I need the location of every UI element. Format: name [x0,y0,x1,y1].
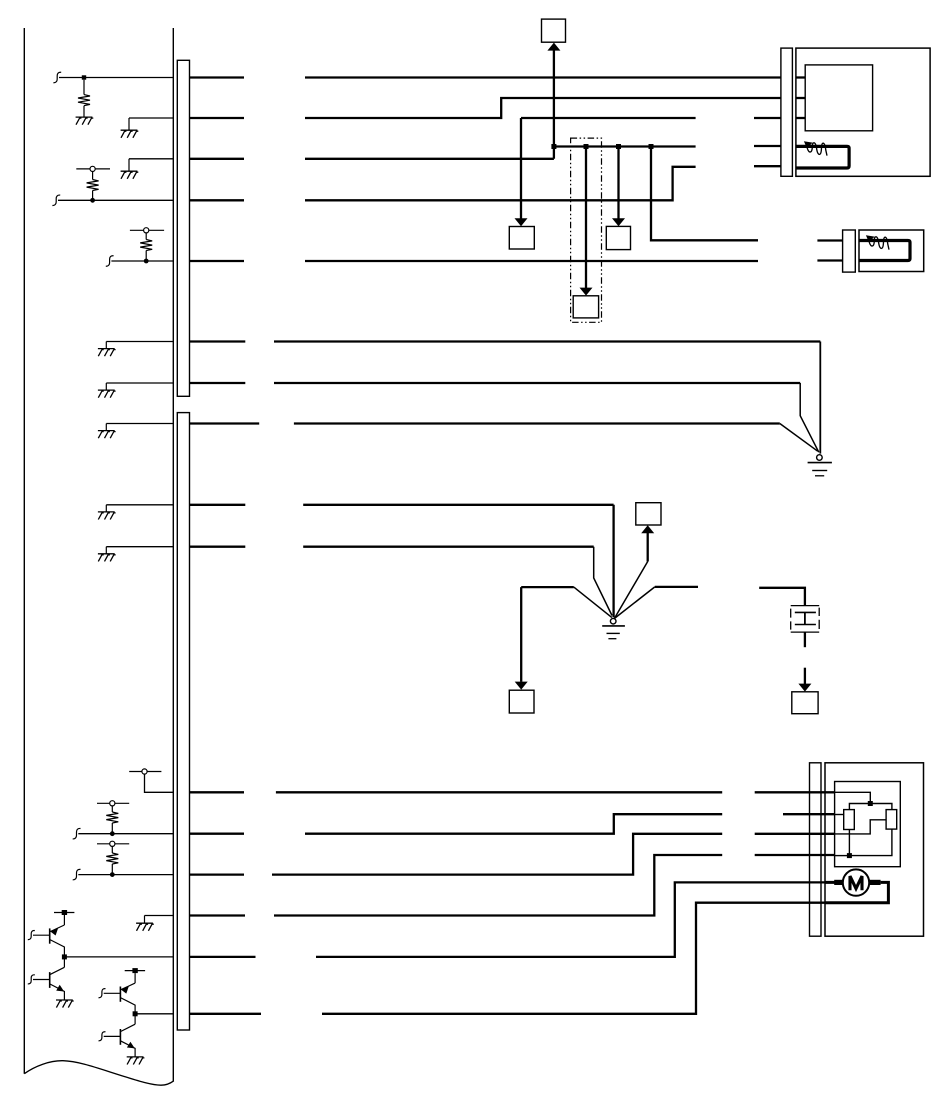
wire row5 thick a [190,260,245,262]
wire rowB3 stub at connector [755,833,835,835]
wire rowB2 stub at connector [783,813,835,815]
transistor Q2 [28,957,65,1000]
connector strip rectangle lower [177,413,189,1030]
heater E2 arrow [866,235,875,242]
ground G6 [98,424,116,439]
wire rowB6 thick b with jog up [322,903,825,1014]
wire row6 thick b [274,340,820,342]
node tap 586 [584,144,589,149]
wire tap 618 down [617,147,619,219]
node row5 junction [144,259,149,264]
wire row5 thick b [305,260,758,262]
chassis ground GC1 [808,455,832,476]
wire row7 thick a [190,382,246,384]
connector strip U1 [781,48,793,176]
wire rowB2 thick b with jog up [305,814,722,834]
node Q1/Q2 junction [62,954,67,959]
wire row1 thick b [305,76,781,78]
wire tap bus stub at connector [754,145,781,147]
resistor R4 rail with pin circle [97,801,129,834]
wire row1 thick a [190,76,245,78]
wire rowB2 left [78,833,173,835]
arrow into S7 [798,684,811,692]
inner module box U2a [835,782,901,867]
hook row1 [53,72,61,82]
connector square S7 [792,692,818,714]
connector square S2 [509,227,534,250]
wire row2 thick b with jog up [305,98,781,118]
wire row8 thick b [294,422,780,424]
component box U2 [825,763,924,936]
wire stub U2 pin3 with step [835,820,887,834]
capacitor C1 plates [795,612,816,624]
wire right branch horizontal [655,586,698,588]
ground G1 [76,117,94,125]
wire rowB4 stub at connector [755,854,835,856]
wire stub U1 pin2 [796,97,805,99]
wire row10 thick a [190,546,246,548]
wire arrow-feed horizontal y118 [521,117,696,119]
wire row6 left [106,341,173,343]
wire rowB4 thick b with jog up [274,855,722,916]
arrow into S2 [515,218,528,226]
wire stub U1 pin3 [796,117,805,119]
wire row9 thick a [190,504,246,506]
wire left branch diagonal to ground [574,587,612,618]
arrow into S1 [547,43,560,51]
wire row9 down to ground [612,505,614,617]
wire left branch down [520,587,522,682]
heater E1 arrow [804,141,813,148]
hook rowB3 [73,869,81,879]
node inner junction2 [847,853,852,858]
motor M1 circle [843,869,869,895]
connector square S5 [636,503,661,525]
arrow into S6 [515,682,528,690]
wire row10 left [106,546,173,548]
hook rowB2 [73,828,81,838]
wire capacitor bottom lead [804,632,806,647]
ground G7 [98,505,116,520]
resistor R3 rail with pin circle [130,228,164,261]
wire rowB1 thick b [276,791,722,793]
wire rowB3 thick b with jog up [272,834,722,875]
wire row7 thick b [274,382,800,384]
wire rowB4 left [145,915,174,917]
component box E2 [859,230,924,272]
resistor RB [886,810,897,830]
heater E2 squiggle [869,237,889,250]
heater element E2 loop [859,241,910,261]
wire row1 left [59,77,173,79]
wire tap 651 down and right [651,147,758,241]
connector square S6 [509,690,534,713]
motor M1 left terminal [834,880,843,885]
wire row3 thick b [305,158,554,160]
wire rowB1 thick a [190,791,245,793]
wire rowB6 left [135,1013,173,1015]
wire row4 left [58,199,173,201]
wire row4 stub at connector [754,165,781,167]
wire row4 thick b with jog up [305,167,696,201]
wire arrow to S7 [804,668,806,685]
wire arrow branch up [647,532,649,561]
transistor Q3 [99,973,136,1014]
ground G2 [121,118,139,138]
node row4 junction [90,198,95,203]
arrow into S5 [641,525,654,533]
wire row4 thick a [190,199,245,201]
wire rowB1 thick c [755,791,835,793]
node tap 618 [616,144,621,149]
terminal T1 [54,910,74,915]
terminal T2 [125,968,145,973]
wire row8 diagonal to ground [780,424,818,452]
wire rowB6 thick a [190,1013,262,1015]
wire rowB4 thick a [190,914,246,916]
wire row9 left [106,504,173,506]
connector square S4 [573,296,598,318]
resistor R5 rail with pin circle [97,841,129,874]
resistor RA [844,810,855,830]
node tap 651 [649,144,654,149]
motor M1 right lead loop [825,882,888,902]
heater E1 squiggle [807,143,827,156]
wire row7 left [106,382,173,384]
node rowB2 junction [110,831,115,836]
wire diagonal ground to arrow branch [615,562,648,619]
transistor Q1 [28,915,65,957]
wire arrow-feed down [520,118,522,219]
wire diagonal ground to right branch [615,587,655,618]
wire rowB5 left [64,956,173,958]
wire heater2 lead2 [817,259,842,261]
motor M1 right terminal [869,880,880,885]
wire row5 left [111,260,173,262]
wire row9 thick b [303,504,613,506]
wire row3 left [129,158,173,160]
wire stub U2 pin1 with corner [835,792,871,803]
chassis ground GC2 [602,618,625,638]
connector square S3 [606,226,630,249]
switch SW1 rail with pin circle [129,769,173,792]
heater element E1 loop [796,146,849,168]
wire row6 down to ground [819,342,821,454]
connector square S1 top [542,19,566,42]
wire row8 thick a [190,422,260,424]
ground G8 [98,547,116,562]
ground G9 [136,916,154,931]
inner module box U1a [805,65,872,131]
wire rowB3 thick a [190,873,245,875]
resistor R1 [78,80,90,117]
wire row10 down and diagonal to ground [594,547,612,616]
wire stub U2 pin4 [835,855,850,857]
left page border [23,28,25,1074]
capacitor C1 dashed box [791,606,820,633]
wire row2 left [129,117,173,119]
ground G4 [98,342,116,357]
wire heater2 lead1 [817,239,842,241]
hook row4 [52,195,60,205]
ground G11 [127,1057,145,1065]
wire row8 left [106,423,173,425]
wire vertical from S1 to row3 [553,48,555,159]
torn paper wavy bottom edge [24,1061,174,1086]
wire rowB2 thick a [190,833,245,835]
connector strip U2 [810,763,822,936]
motor M1 left lead [825,881,843,884]
node rowB3 junction [110,872,115,877]
node tap bus junction [551,144,556,149]
wire rowB3 left [78,874,173,876]
resistor R2 rail with pin circle [76,166,110,200]
wire capacitor feed [759,588,805,606]
wire rowB5 thick b with jog up [316,882,825,957]
ground G5 [98,383,116,398]
node Q3/Q4 junction [133,1011,138,1016]
wire tap bus horizontal [554,145,696,147]
connector strip rectangle upper [177,60,189,396]
wire left branch horizontal [521,586,574,588]
hook row5 [106,256,114,266]
wire stub U1 pin1 [796,76,805,78]
wire row7 down and diagonal to ground [800,383,819,452]
wire resistor RB bottom lead [849,829,892,856]
ground G10 [56,1000,74,1008]
wire row10 thick b [303,546,594,548]
wire row3 thick a [190,158,245,160]
wire resistor RA bottom lead [848,830,850,856]
arrow into S3 [612,218,625,226]
wire tap 586 down [585,147,587,289]
wire resistor top rail [849,804,892,810]
wire stub U2 pin2 [835,814,844,816]
arrow into S4 [580,288,593,296]
wire rowB5 thick a [190,956,256,958]
dash-dot component box [571,138,602,322]
connector strip E2 [843,230,856,272]
wire row6 thick a [190,340,246,342]
ground G3 [121,159,139,179]
node row1 junction [82,75,86,79]
wire row2 thick a [190,117,245,119]
motor M1 label [850,876,862,890]
component box U1 [796,48,930,176]
node inner junction1 [868,801,873,806]
transistor Q4 [99,1014,136,1057]
connector bus vertical line [172,28,174,1081]
wire arrow-feed stub at connector [754,117,781,119]
